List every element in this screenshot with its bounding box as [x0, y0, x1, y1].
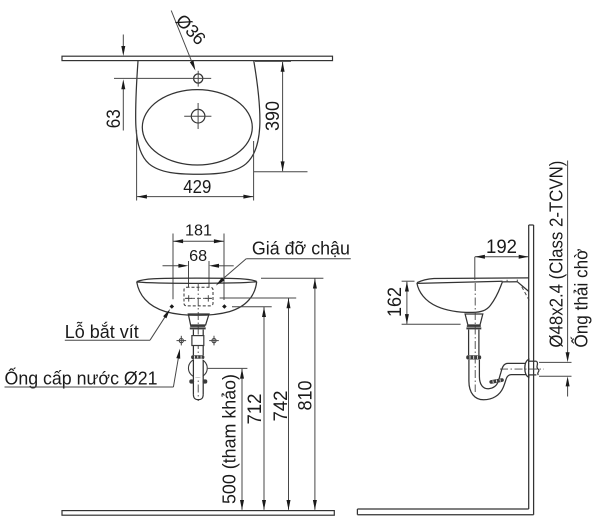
- trap union nut (side): [489, 378, 504, 384]
- floor line (side view): [357, 509, 533, 515]
- svg-text:742: 742: [271, 391, 292, 422]
- waste outlet flange: [525, 359, 529, 377]
- supply point left: [177, 336, 187, 346]
- faucet hole circle: [194, 74, 203, 83]
- svg-text:500 (tham khảo): 500 (tham khảo): [220, 374, 240, 504]
- svg-text:68: 68: [189, 248, 207, 265]
- trap outer wall (side): [469, 360, 526, 400]
- leader line for diameter 36: [171, 11, 192, 64]
- svg-text:63: 63: [104, 109, 125, 128]
- basin outline (top view): [136, 61, 260, 174]
- screw hole right: [222, 304, 227, 309]
- svg-text:Giá đỡ chậu: Giá đỡ chậu: [252, 238, 350, 258]
- basin rim (side view): [417, 278, 529, 283]
- mounting bracket (dashed): [184, 287, 213, 306]
- drain pipe lower (front): [192, 360, 194, 394]
- svg-text:Lỗ bắt vít: Lỗ bắt vít: [65, 321, 139, 342]
- vertical pipe (side): [468, 330, 470, 356]
- label O48x2.4 (Class 2-TCVN): [547, 161, 567, 348]
- coupling nut (front): [191, 355, 204, 359]
- screw hole left: [170, 304, 175, 309]
- drain tailpiece (side): [465, 314, 483, 325]
- svg-text:712: 712: [245, 394, 266, 425]
- svg-text:162: 162: [385, 287, 406, 317]
- dimension 810: [261, 277, 323, 279]
- floor line (front view): [62, 511, 334, 516]
- dimension 390: [255, 60, 291, 62]
- supply point right: [209, 336, 219, 346]
- wing lugs (front): [189, 379, 194, 383]
- svg-text:Ống cấp nước Ø21: Ống cấp nước Ø21: [5, 367, 158, 388]
- bracket hole right: [205, 295, 211, 301]
- trap ball (front): [188, 359, 207, 378]
- bracket centerline: [185, 297, 212, 299]
- label O36: [172, 10, 210, 49]
- basin rim (front view): [137, 278, 257, 282]
- svg-text:390: 390: [263, 101, 284, 131]
- dimension 63: [122, 35, 124, 48]
- basin bowl profile (side view): [417, 282, 502, 312]
- tailpiece flange rings (side): [467, 325, 481, 327]
- center axis (front view): [197, 283, 199, 401]
- svg-text:Ống thải chờ: Ống thải chờ: [570, 248, 591, 347]
- wall (side view): [529, 225, 534, 515]
- hidden screw line (side view): [522, 287, 530, 302]
- svg-text:810: 810: [296, 381, 317, 411]
- drain pipe (front): [192, 330, 194, 336]
- pipe axes (side): [474, 283, 476, 392]
- slip joint (front): [192, 336, 204, 346]
- drain crosshair: [184, 115, 211, 117]
- back plateau (side view): [502, 281, 517, 283]
- dimension 429: [136, 130, 138, 201]
- dimension 162: [402, 280, 415, 282]
- slip nut (side): [466, 355, 481, 359]
- svg-text:192: 192: [486, 236, 517, 258]
- basin bowl ellipse (top view): [142, 90, 252, 165]
- tailpiece flange rings (front): [190, 325, 205, 327]
- drain tailpiece (front): [188, 314, 209, 325]
- svg-text:Ø48x2.4 (Class 2-TCVN): Ø48x2.4 (Class 2-TCVN): [547, 161, 567, 348]
- svg-text:429: 429: [183, 176, 211, 197]
- faucet hole crosshair: [197, 71, 199, 87]
- trap inner wall (side): [479, 360, 526, 389]
- dimension 742: [220, 297, 297, 299]
- basin bowl (front view): [137, 282, 257, 316]
- dimension 712: [232, 306, 272, 308]
- svg-text:181: 181: [185, 223, 212, 240]
- pipe bottom cap (front): [193, 394, 203, 399]
- bracket hook (side view): [517, 282, 529, 292]
- dimension 500 (tham khao): [208, 367, 248, 369]
- dimension O48 leader lines: [539, 361, 572, 363]
- drain hole circle: [191, 109, 205, 123]
- label Ong thai cho: [570, 248, 591, 347]
- bracket hole left: [186, 295, 192, 301]
- counter/wall edge bar (top view): [62, 56, 333, 60]
